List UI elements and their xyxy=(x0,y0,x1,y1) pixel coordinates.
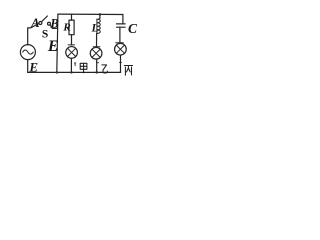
wire right bracket of switch xyxy=(50,25,58,29)
inductor L coil xyxy=(97,18,100,33)
svg-text:B: B xyxy=(49,16,58,30)
bottom wire xyxy=(28,71,121,73)
capacitor C bottom plate xyxy=(117,26,126,28)
wire stub to inductor xyxy=(99,14,101,18)
wire below source xyxy=(27,60,29,73)
svg-text:E: E xyxy=(28,59,38,74)
junction dot lamp1 / bottom wire xyxy=(70,71,73,74)
wire lamp3 to bottom xyxy=(120,55,122,72)
switch contact B xyxy=(48,22,51,25)
junction dot left edge / bottom wire xyxy=(56,71,59,74)
wire stub to resistor xyxy=(71,14,73,20)
lamp2 top tick xyxy=(93,46,100,48)
label yi (lamp2) xyxy=(102,65,108,73)
resistor R box xyxy=(69,20,74,35)
wire capacitor to lamp3 xyxy=(119,27,121,43)
top wire xyxy=(58,13,123,15)
label bing (lamp3) xyxy=(124,66,132,76)
wire left bracket of switch xyxy=(28,24,39,45)
svg-text:E: E xyxy=(47,38,59,55)
switch contact A xyxy=(39,22,42,25)
svg-text:C: C xyxy=(128,21,138,36)
capacitor C top plate xyxy=(117,23,126,25)
wire inductor to lamp2 xyxy=(96,34,98,47)
wire lamp2 to bottom xyxy=(96,59,98,72)
lamp3 top tick xyxy=(116,42,124,44)
svg-text:L: L xyxy=(91,23,99,35)
label jia (lamp1) xyxy=(80,63,87,73)
wire resistor to lamp1 xyxy=(71,35,73,45)
junction dot lamp2 / bottom wire xyxy=(95,71,98,74)
lamp 1 (jia) xyxy=(66,47,78,59)
svg-text:R: R xyxy=(62,22,70,34)
wire lamp1 to bottom xyxy=(70,58,72,72)
switch lever S xyxy=(42,16,48,22)
stray tick near lamp1 label xyxy=(74,63,75,66)
junction dot inductor / top wire xyxy=(99,13,102,16)
sine wave inside source xyxy=(23,50,34,54)
lamp 3 (bing) xyxy=(115,43,127,55)
svg-text:A: A xyxy=(30,16,39,30)
left edge wire of rectangle xyxy=(57,14,58,72)
lamp1 top tick xyxy=(68,44,74,46)
lamp 2 (yi) xyxy=(90,47,102,59)
wire top right corner down to capacitor xyxy=(122,15,124,24)
serif tick on lamp3 bottom wire xyxy=(120,61,122,63)
AC source E xyxy=(20,45,35,60)
serif tick on lamp2 bottom wire xyxy=(97,62,99,64)
